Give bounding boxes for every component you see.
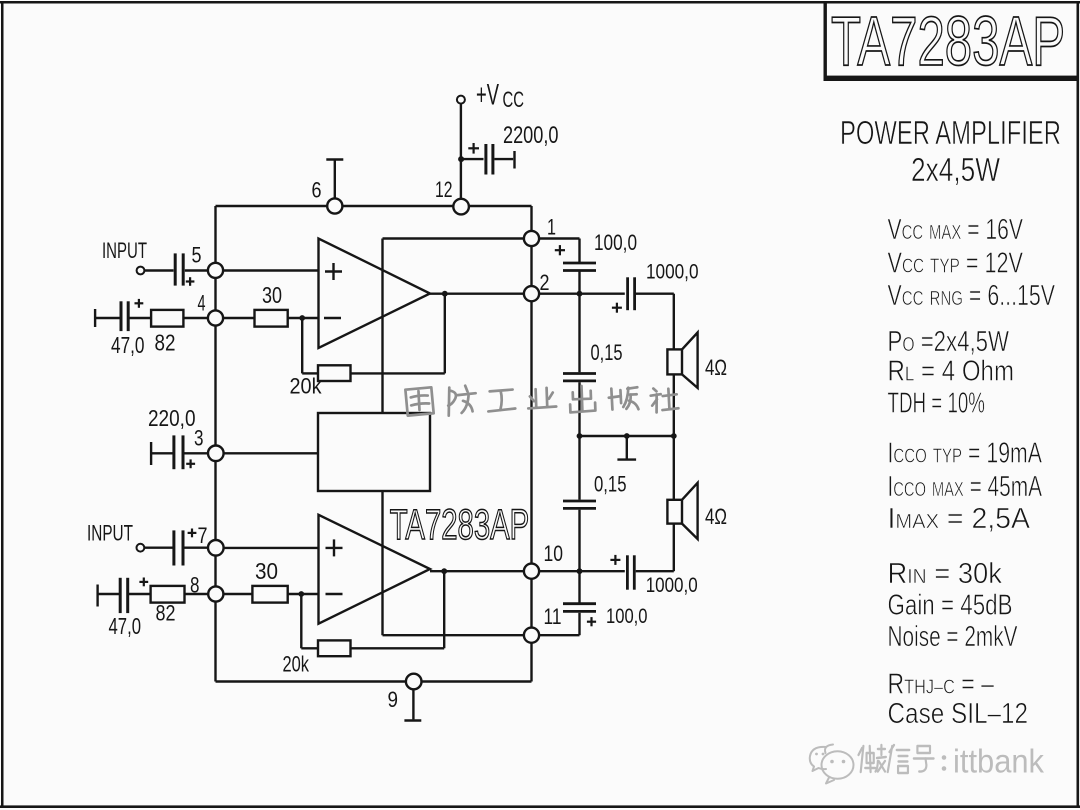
ground mid rail: [617, 436, 636, 460]
svg-text:0,15: 0,15: [591, 340, 623, 365]
pin 12: [453, 199, 469, 215]
node mid rail right: [671, 433, 677, 439]
title TA7283AP: [831, 2, 1065, 80]
capacitor 47,0 lower: [120, 578, 128, 613]
wire R30 to op-amp inverting lower: [288, 593, 319, 595]
svg-text:30: 30: [262, 282, 282, 308]
node inverting junction upper: [299, 315, 305, 321]
svg-text:100,0: 100,0: [594, 230, 637, 255]
pin 11: [524, 628, 539, 643]
label 4 ohm lower: [705, 504, 727, 529]
terminal stub 220,0: [150, 442, 152, 465]
label INPUT upper: [102, 238, 147, 263]
pin 1: [524, 231, 539, 246]
plus sign C7: [188, 529, 197, 538]
wire C100 lower to pin 11: [539, 613, 580, 635]
wire C47 to R82 lower: [129, 593, 151, 595]
pin 7: [208, 540, 224, 556]
wire stub to C47: [95, 317, 119, 319]
ground pin 9: [404, 689, 421, 720]
wire block top to pin 1: [383, 239, 525, 414]
spec Case: [888, 698, 1029, 730]
svg-text:6: 6: [312, 178, 322, 203]
value 1000,0 upper: [646, 261, 699, 284]
svg-text:30: 30: [255, 558, 278, 584]
wire C47 to R82: [130, 317, 152, 319]
capacitor 47,0 upper: [121, 301, 128, 331]
input terminal lower: [137, 544, 145, 552]
+Vcc terminal: [457, 96, 465, 104]
svg-text:220,0: 220,0: [148, 405, 196, 431]
svg-text:CC: CC: [503, 87, 525, 112]
svg-text:1: 1: [547, 215, 556, 240]
spec Rin: [888, 558, 1003, 590]
label pin 11: [544, 604, 562, 629]
svg-text:8: 8: [190, 572, 200, 597]
title box border: [824, 3, 1079, 82]
pin 3: [208, 446, 224, 462]
wire right bus: [530, 206, 532, 682]
plus sign C5: [186, 277, 195, 286]
svg-text:3: 3: [194, 426, 204, 451]
label pin 7: [198, 523, 208, 548]
wire Vcc stem: [460, 104, 462, 200]
watermark char guo: [405, 387, 433, 415]
resistor 30 upper: [255, 310, 288, 327]
value 220,0: [148, 405, 196, 431]
svg-text:47,0: 47,0: [111, 332, 145, 358]
value 47,0 lower: [109, 613, 142, 639]
spec Imax: [888, 503, 1031, 535]
resistor 82 lower: [151, 586, 185, 603]
svg-text:9: 9: [388, 687, 399, 712]
svg-text:82: 82: [155, 329, 176, 355]
plus sign 100,0 lower: [587, 617, 596, 626]
capacitor 220,0: [174, 435, 183, 469]
plus sign 47,0 upper: [135, 299, 144, 308]
svg-text:RIN = 30k: RIN = 30k: [888, 558, 1003, 590]
svg-text:12: 12: [435, 177, 453, 202]
svg-text:5: 5: [192, 243, 202, 268]
label INPUT lower: [87, 521, 133, 546]
node mid rail left: [577, 433, 583, 439]
label pin 4: [198, 290, 206, 315]
node pin10 branch: [577, 568, 583, 574]
minus sign op-amp U1: [324, 317, 341, 319]
watermark char chu: [570, 386, 596, 413]
spec Gain: [888, 590, 1013, 622]
value 100,0 upper: [594, 230, 637, 255]
spec Po: [888, 326, 1010, 358]
footer char wei: [858, 745, 885, 772]
watermark char she: [650, 387, 678, 412]
spec Vcc TYP: [888, 247, 1024, 279]
wire C5 to pin 5: [185, 269, 208, 271]
wire 0,15 lower to pin 10 rail: [578, 510, 580, 572]
wire feedback down upper: [302, 318, 318, 373]
value 82 upper: [155, 329, 176, 355]
watermark char fang: [447, 385, 476, 415]
svg-text:4Ω: 4Ω: [705, 355, 727, 380]
resistor 20k lower: [318, 640, 351, 656]
value 0,15 lower: [594, 472, 627, 497]
op-amp U1: [319, 239, 431, 349]
wire bottom rail: [216, 680, 532, 682]
wire 0,15 to mid rail: [578, 382, 580, 436]
svg-text:10: 10: [544, 541, 564, 566]
label pin 12: [435, 177, 453, 202]
svg-text:2: 2: [540, 270, 550, 295]
wire pin 2 to C1000 upper: [539, 293, 625, 295]
wire C1000 lower to speaker: [636, 524, 674, 572]
label 4 ohm upper: [705, 355, 727, 380]
label pin 6: [312, 178, 322, 203]
plus sign op-amp U1: [325, 263, 342, 280]
node output junction upper: [442, 291, 448, 297]
label pin 9: [388, 687, 399, 712]
watermark char ye: [528, 387, 557, 408]
svg-text:20k: 20k: [283, 652, 310, 677]
svg-text:0,15: 0,15: [594, 472, 627, 497]
wire block bottom to pin 11: [383, 491, 525, 635]
wire pin 1 to C100 upper: [539, 239, 580, 264]
wire C100 to output node upper: [578, 272, 580, 294]
heading 2x4,5W: [911, 151, 1001, 188]
svg-text:1000,0: 1000,0: [646, 261, 699, 284]
pin 10: [524, 564, 539, 579]
spec TDH: [888, 387, 986, 419]
wire 20k to output lower: [351, 571, 445, 648]
svg-text:Case SIL–12: Case SIL–12: [888, 698, 1029, 730]
svg-text:TDH = 10%: TDH = 10%: [888, 387, 986, 419]
spec Vcc RNG: [888, 280, 1056, 312]
pin 6: [327, 198, 342, 213]
svg-text:POWER AMPLIFIER: POWER AMPLIFIER: [840, 114, 1061, 151]
wire C220 to pin 3: [185, 452, 209, 454]
capacitor 1000,0 upper: [628, 277, 635, 310]
capacitor input 7: [174, 530, 183, 565]
plus sign 2200,0: [468, 143, 479, 154]
plus sign 1000,0 upper: [612, 303, 622, 313]
node Vcc junction: [458, 156, 464, 162]
capacitor 100,0 lower: [563, 604, 596, 612]
pin 8: [208, 586, 223, 601]
value 0,15 upper: [591, 340, 623, 365]
wire U2 output to pin 10: [430, 570, 524, 572]
minus sign op-amp U2: [326, 593, 343, 595]
label pin 2: [540, 270, 550, 295]
wire R82 to pin 8: [185, 593, 209, 595]
wire C100 lower branch: [578, 571, 580, 604]
speaker LS1 4 ohm: [667, 333, 697, 388]
plus sign op-amp U2: [326, 539, 343, 556]
wire C1000 to speaker upper: [636, 294, 674, 350]
wechat icon: [810, 745, 854, 784]
spec Vcc MAX: [888, 214, 1024, 246]
value 1000,0 lower: [646, 574, 698, 597]
value 82 lower: [156, 601, 176, 626]
wire pin 7 to op-amp: [224, 547, 319, 549]
footer char xin: [888, 745, 910, 773]
svg-text:20k: 20k: [290, 373, 323, 398]
value 47,0 upper: [111, 332, 145, 358]
watermark char ban: [608, 387, 638, 410]
wire input to C5: [145, 269, 174, 271]
op-amp U2: [319, 515, 431, 624]
resistor 82 upper: [151, 310, 183, 327]
capacitor input 5: [175, 253, 183, 285]
wire mid rail: [580, 435, 674, 437]
node inverting junction lower: [298, 591, 304, 597]
spec Noise: [888, 621, 1018, 653]
capacitor 100,0 upper: [563, 263, 596, 271]
wire stub to C220: [151, 452, 172, 454]
spec Rthj-c: [888, 669, 995, 701]
wire speaker to mid rail upper: [673, 375, 675, 437]
wire R82 to pin 4: [183, 317, 208, 319]
pin 5: [208, 263, 223, 278]
svg-text:1000,0: 1000,0: [646, 574, 698, 597]
resistor 20k upper: [318, 365, 351, 381]
watermark char gong: [488, 390, 516, 412]
terminal stub 47,0 upper: [94, 309, 96, 327]
label IC TA7283AP: [390, 501, 530, 549]
wire pin 4 to R30: [223, 317, 255, 319]
terminal bar above pin 6: [326, 160, 343, 200]
wire stub to C47 lower: [98, 593, 119, 595]
svg-text:4: 4: [198, 290, 206, 315]
footer char hao: [914, 746, 934, 772]
capacitor 0,15 lower: [563, 501, 596, 508]
value 20k upper: [290, 373, 323, 398]
wire C7 to pin 7: [185, 547, 209, 549]
svg-text:47,0: 47,0: [109, 613, 142, 639]
svg-text:4Ω: 4Ω: [705, 504, 727, 529]
wire pin 10 to C1000 lower: [539, 570, 625, 572]
plus sign 1000,0 lower: [610, 555, 620, 565]
node mid rail center: [624, 433, 630, 439]
speaker LS2 4 ohm: [667, 483, 697, 539]
label pin 8: [190, 572, 200, 597]
terminal stub 47,0 lower: [96, 585, 98, 607]
footer text ittbank: [953, 743, 1044, 780]
wire 20k to output upper: [351, 294, 445, 374]
value 30 upper: [262, 282, 282, 308]
plus sign 220,0: [186, 459, 195, 468]
pin 4: [208, 310, 223, 325]
value 2200,0: [503, 122, 559, 149]
svg-text:TA7283AP: TA7283AP: [831, 2, 1065, 80]
capacitor 2200,0: [461, 144, 515, 175]
label pin 10: [544, 541, 564, 566]
plus sign 47,0 lower: [139, 578, 148, 587]
capacitor 1000,0 lower: [627, 555, 634, 589]
pin 9: [406, 674, 422, 690]
svg-text:ittbank: ittbank: [953, 743, 1044, 780]
value 20k lower: [283, 652, 310, 677]
spec RL: [888, 355, 1015, 387]
resistor 30 lower: [252, 586, 287, 603]
label pin 1: [547, 215, 556, 240]
wire mid rail to speaker LS2: [673, 436, 675, 500]
svg-text:100,0: 100,0: [606, 605, 648, 628]
svg-text:Noise = 2mkV: Noise = 2mkV: [888, 621, 1018, 653]
svg-text:82: 82: [156, 601, 176, 626]
plus sign 100,0 upper: [555, 245, 565, 255]
wire U1 output to pin 2: [430, 293, 524, 295]
node output junction lower: [441, 568, 447, 574]
value 30 lower: [255, 558, 278, 584]
svg-text:TA7283AP: TA7283AP: [390, 501, 530, 549]
spec Icco TYP: [888, 438, 1043, 470]
label pin 3: [194, 426, 204, 451]
value 100,0 lower: [606, 605, 648, 628]
wire 0,15 upper branch: [578, 294, 580, 373]
wire feedback down lower: [301, 594, 318, 648]
wire left bus: [214, 206, 216, 682]
wire pin 3 to block: [223, 452, 318, 454]
svg-text:INPUT: INPUT: [87, 521, 133, 546]
svg-text:2200,0: 2200,0: [503, 122, 559, 149]
svg-text:INPUT: INPUT: [102, 238, 147, 263]
heading POWER AMPLIFIER: [840, 114, 1061, 151]
svg-text:7: 7: [198, 523, 208, 548]
IC bias block: [318, 413, 430, 491]
capacitor 0,15 upper: [563, 374, 596, 381]
spec Icco MAX: [888, 471, 1043, 503]
wire pin 8 to R30 lower: [224, 593, 253, 595]
label pin 5: [192, 243, 202, 268]
wire 0,15 lower branch: [578, 436, 580, 500]
svg-text:+V: +V: [476, 79, 499, 112]
svg-text:Gain = 45dB: Gain = 45dB: [888, 590, 1013, 622]
node pin2 branch: [577, 291, 583, 297]
wire top rail: [216, 205, 532, 207]
wire pin 5 to op-amp: [223, 269, 319, 271]
pin 2: [524, 286, 539, 301]
wire R30 to op-amp inverting: [288, 317, 319, 319]
footer colon: [942, 755, 947, 771]
input terminal upper: [137, 267, 145, 275]
label +Vcc: [476, 79, 524, 113]
svg-text:2x4,5W: 2x4,5W: [911, 151, 1001, 188]
svg-text:11: 11: [544, 604, 562, 629]
wire input to C7: [144, 547, 172, 549]
